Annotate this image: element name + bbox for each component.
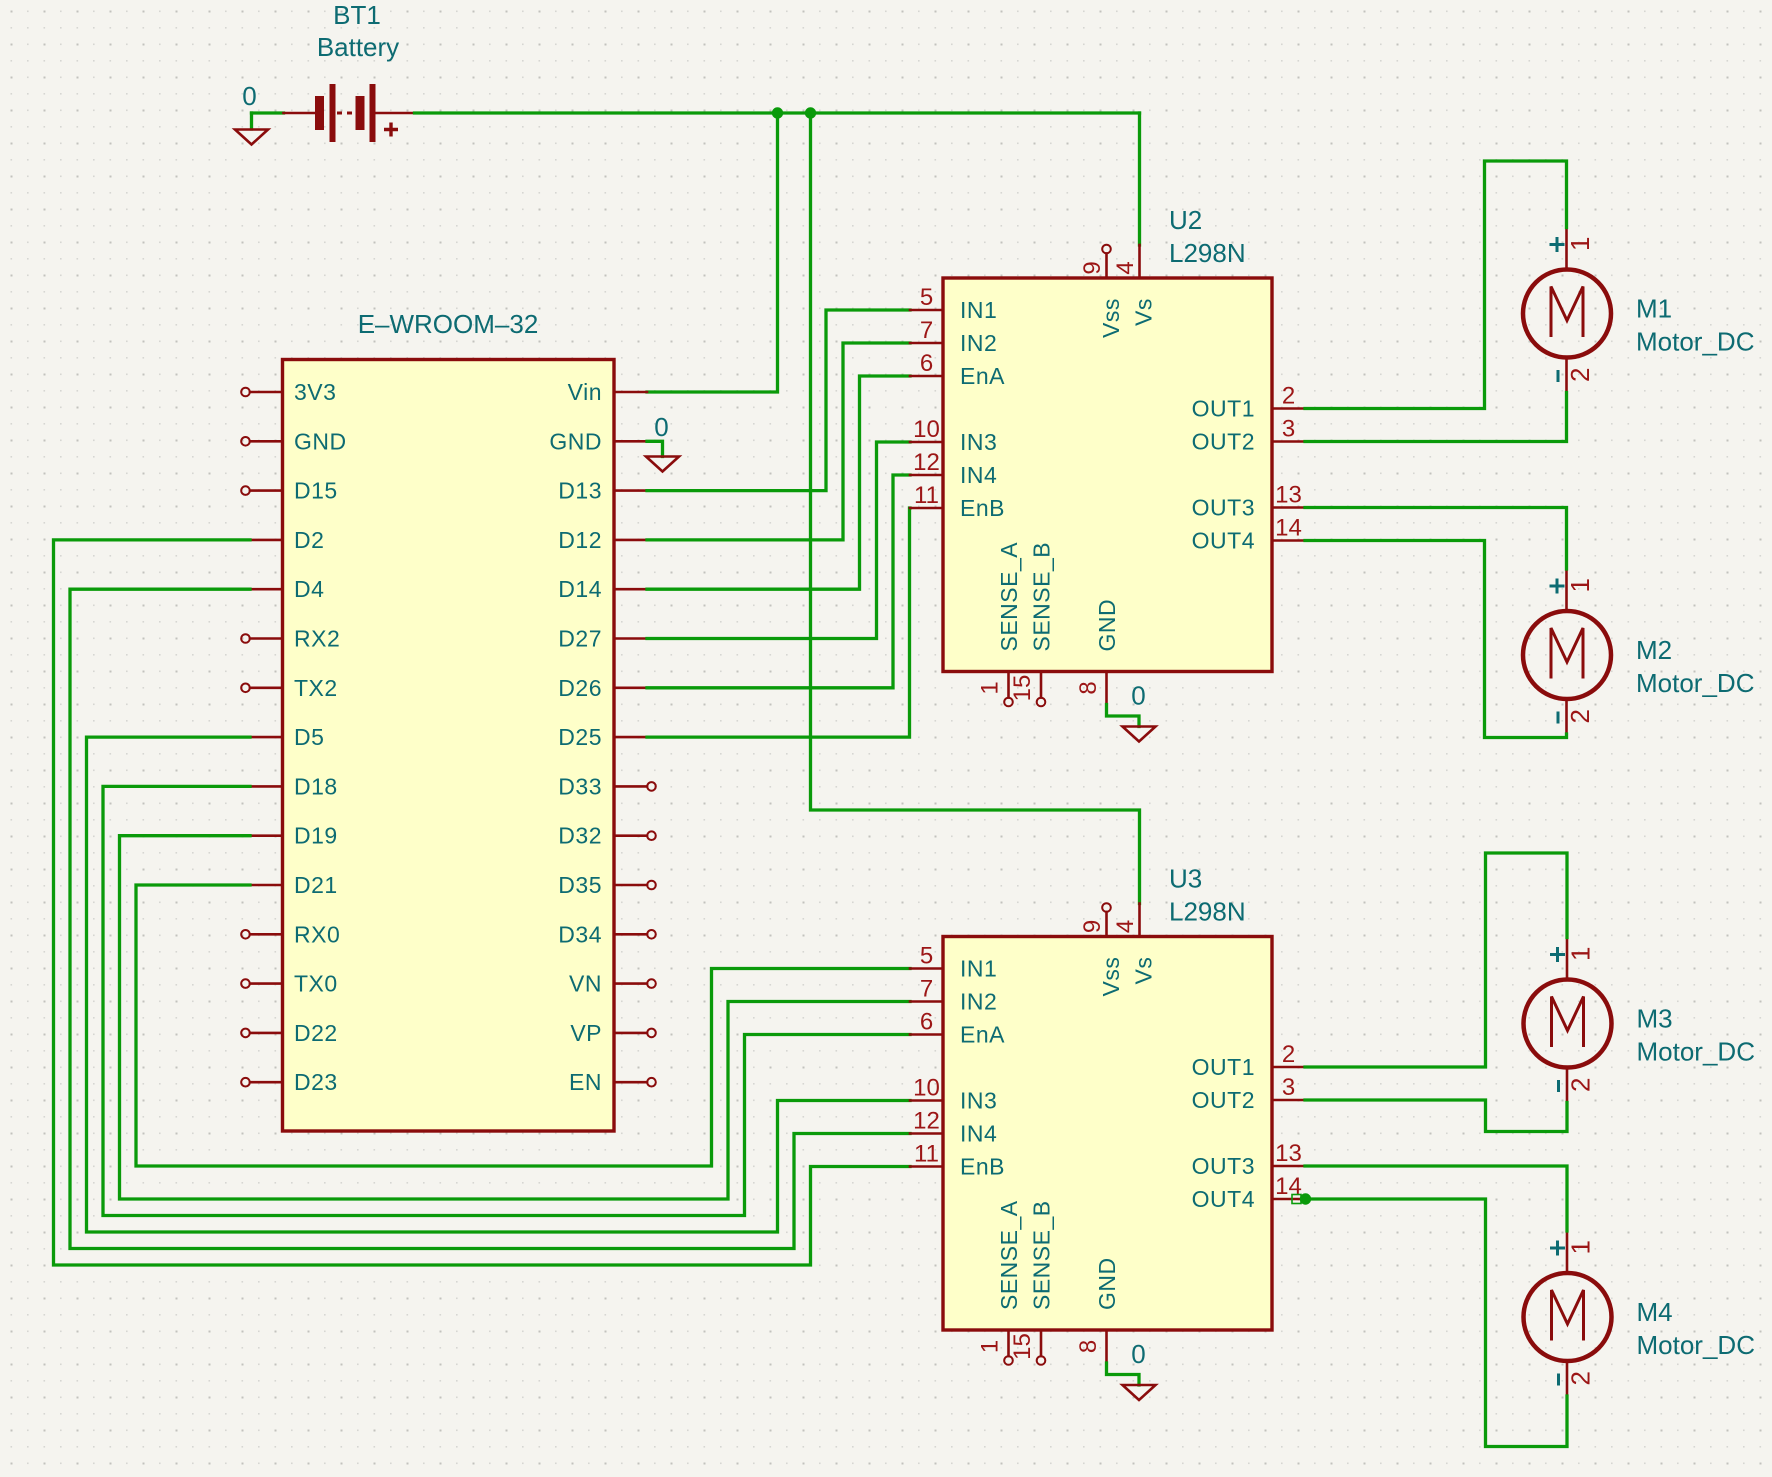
svg-text:7: 7	[920, 317, 933, 344]
pin D19 (ESP32 left)	[250, 823, 338, 849]
svg-text:D27: D27	[558, 626, 602, 652]
pin 1 U3.SENSE_A (unconnected)	[977, 1330, 1013, 1365]
svg-text:Vs: Vs	[1131, 298, 1157, 326]
pin TX2 (ESP32 left)	[241, 675, 337, 701]
wire D19 to U3 IN2	[120, 836, 911, 1199]
svg-text:IN3: IN3	[960, 1088, 997, 1114]
pin D2 (ESP32 left)	[250, 527, 324, 553]
junction Vin tap	[772, 107, 783, 118]
pin D15 (ESP32 left)	[241, 478, 338, 504]
svg-text:SENSE_A: SENSE_A	[996, 1200, 1022, 1310]
wire U3 Vs feed	[811, 113, 1140, 904]
svg-text:2: 2	[1565, 368, 1595, 382]
svg-text:7: 7	[920, 976, 933, 1003]
svg-text:U2: U2	[1169, 205, 1202, 235]
pin 9 U2.Vss (unconnected)	[1079, 245, 1111, 278]
wire D2 to U3 EnB	[54, 540, 911, 1265]
svg-text:1: 1	[1565, 578, 1595, 592]
motor M2 pin name -	[1557, 712, 1560, 724]
svg-text:Battery: Battery	[317, 32, 399, 62]
module E-WROOM-32 body	[283, 360, 615, 1132]
svg-text:BT1: BT1	[333, 0, 381, 30]
svg-text:2: 2	[1565, 709, 1595, 723]
svg-text:OUT3: OUT3	[1192, 1153, 1255, 1179]
pin D26 (ESP32 right)	[558, 675, 647, 701]
svg-text:D26: D26	[558, 675, 602, 701]
svg-text:2: 2	[1282, 1041, 1295, 1068]
pin D13 (ESP32 right)	[558, 478, 647, 504]
pin GND (ESP32 right)	[549, 428, 647, 454]
motor M1 body	[1523, 270, 1611, 358]
svg-text:3: 3	[1282, 1074, 1295, 1101]
wire U2 OUT3 to M2 +	[1305, 508, 1567, 570]
junction at U3 OUT4	[1300, 1193, 1311, 1204]
battery BT1 symbol	[284, 84, 415, 142]
svg-text:EnB: EnB	[960, 495, 1005, 521]
svg-text:6: 6	[920, 350, 933, 377]
svg-text:14: 14	[1275, 515, 1302, 542]
svg-text:D15: D15	[294, 478, 338, 504]
wire M1 - to U2 OUT2	[1305, 393, 1567, 442]
motor M2 pin name +	[1550, 579, 1565, 594]
wire U3 OUT3 to M4 +	[1305, 1166, 1567, 1231]
svg-text:RX0: RX0	[294, 921, 340, 947]
svg-text:SENSE_B: SENSE_B	[1029, 1200, 1055, 1310]
svg-text:8: 8	[1075, 1340, 1102, 1353]
svg-text:GND: GND	[1094, 1257, 1120, 1310]
svg-text:Motor_DC: Motor_DC	[1636, 668, 1754, 698]
svg-text:D21: D21	[294, 872, 338, 898]
pin EN (ESP32 right)	[569, 1069, 656, 1095]
motor M2 body	[1523, 611, 1611, 699]
pin 3V3 (ESP32 left)	[241, 379, 336, 405]
svg-text:5: 5	[920, 284, 933, 311]
pin 12 U3.IN4	[910, 1108, 997, 1147]
pin 14 U2.OUT4	[1192, 515, 1305, 554]
pin 13 U2.OUT3	[1192, 482, 1305, 521]
motor M3 pin name -	[1557, 1080, 1560, 1092]
pin D35 (ESP32 right)	[558, 872, 656, 898]
svg-text:IN2: IN2	[960, 330, 997, 356]
wire battery positive rail to U2 Vs	[415, 111, 1140, 114]
pin 2 U2.OUT1	[1192, 383, 1305, 422]
wire D5 to U3 IN3	[87, 737, 911, 1232]
pin 6 U2.EnA	[910, 350, 1005, 389]
pin D27 (ESP32 right)	[558, 626, 647, 652]
svg-text:Vs: Vs	[1131, 957, 1157, 985]
pin D25 (ESP32 right)	[558, 724, 647, 750]
pin D4 (ESP32 left)	[250, 576, 324, 602]
pin 8 U3.GND	[1075, 1330, 1107, 1363]
driver U2 body	[943, 278, 1272, 672]
svg-text:SENSE_A: SENSE_A	[996, 542, 1022, 652]
pin RX2 (ESP32 left)	[241, 626, 340, 652]
svg-text:0: 0	[1131, 1339, 1145, 1369]
svg-text:12: 12	[913, 1108, 940, 1135]
svg-text:OUT2: OUT2	[1192, 429, 1255, 455]
svg-text:EnA: EnA	[960, 363, 1005, 389]
svg-text:10: 10	[913, 416, 940, 443]
svg-text:D22: D22	[294, 1020, 338, 1046]
svg-text:TX0: TX0	[294, 971, 338, 997]
svg-text:M4: M4	[1637, 1297, 1673, 1327]
svg-text:TX2: TX2	[294, 675, 338, 701]
svg-text:D13: D13	[558, 478, 602, 504]
pin 5 U3.IN1	[910, 943, 997, 982]
svg-text:VP: VP	[570, 1020, 602, 1046]
pin 3 U3.OUT2	[1192, 1074, 1305, 1113]
svg-text:VN: VN	[569, 971, 602, 997]
wire D25 to U2 EnB	[647, 508, 910, 737]
motor M2 pin 2 stub	[1565, 699, 1568, 734]
dangling wire-end square at U3 OUT4	[1292, 1195, 1301, 1204]
svg-text:D25: D25	[558, 724, 602, 750]
svg-text:IN4: IN4	[960, 462, 997, 488]
svg-text:14: 14	[1275, 1173, 1302, 1200]
pin 5 U2.IN1	[910, 284, 997, 323]
wire M3 - to U3 OUT2	[1305, 1100, 1567, 1132]
pin 3 U2.OUT2	[1192, 416, 1305, 455]
svg-text:OUT4: OUT4	[1192, 528, 1255, 554]
pin D22 (ESP32 left)	[241, 1020, 338, 1046]
svg-text:IN2: IN2	[960, 989, 997, 1015]
wire M4 - to U3 OUT4	[1305, 1199, 1567, 1447]
svg-text:15: 15	[1009, 1333, 1036, 1360]
svg-text:IN1: IN1	[960, 297, 997, 323]
pin 6 U3.EnA	[910, 1009, 1005, 1048]
svg-text:D12: D12	[558, 527, 602, 553]
motor M3 pin 1 stub	[1566, 938, 1569, 980]
svg-text:IN3: IN3	[960, 429, 997, 455]
wire U3 OUT1 to M3 +	[1305, 853, 1567, 1067]
svg-text:M1: M1	[1636, 294, 1672, 324]
pin Vin (ESP32 right)	[568, 379, 647, 405]
svg-text:Vin: Vin	[568, 379, 602, 405]
svg-text:Motor_DC: Motor_DC	[1636, 327, 1754, 357]
svg-text:Vss: Vss	[1098, 298, 1124, 338]
motor M2 pin 1 stub	[1565, 569, 1568, 611]
svg-text:D4: D4	[294, 576, 324, 602]
svg-text:4: 4	[1112, 920, 1139, 933]
junction U3 Vs tap	[805, 107, 816, 118]
motor M3 pin name +	[1550, 947, 1565, 962]
wire battery negative to ground	[252, 111, 284, 114]
svg-text:Vss: Vss	[1098, 957, 1124, 997]
svg-text:9: 9	[1079, 261, 1106, 274]
svg-text:12: 12	[913, 449, 940, 476]
svg-text:2: 2	[1566, 1371, 1596, 1385]
ground symbol at U3 GND	[1123, 1385, 1156, 1400]
motor M4 pin 2 stub	[1566, 1361, 1569, 1396]
motor M1 pin 2 stub	[1565, 358, 1568, 393]
pin 7 U2.IN2	[910, 317, 997, 356]
wire D21 to U3 IN1	[136, 885, 910, 1166]
svg-text:OUT1: OUT1	[1192, 396, 1255, 422]
pin 9 U3.Vss (unconnected)	[1079, 903, 1111, 936]
svg-text:4: 4	[1112, 261, 1139, 274]
pin 14 U3.OUT4	[1192, 1173, 1305, 1212]
wire D13 to U2 IN1	[647, 310, 910, 491]
pin 1 U2.SENSE_A (unconnected)	[977, 672, 1013, 707]
pin D5 (ESP32 left)	[250, 724, 324, 750]
pin D33 (ESP32 right)	[558, 773, 656, 799]
svg-text:0: 0	[654, 412, 668, 442]
svg-text:L298N: L298N	[1169, 238, 1246, 268]
svg-text:GND: GND	[1094, 599, 1120, 652]
svg-text:OUT2: OUT2	[1192, 1087, 1255, 1113]
pin 12 U2.IN4	[910, 449, 997, 488]
wire D18 to U3 EnA	[103, 786, 910, 1215]
svg-text:D23: D23	[294, 1069, 338, 1095]
motor M4 pin name +	[1550, 1241, 1565, 1256]
svg-text:D33: D33	[558, 773, 602, 799]
svg-text:L298N: L298N	[1169, 897, 1246, 927]
pin 13 U3.OUT3	[1192, 1140, 1305, 1179]
driver U3 body	[943, 937, 1272, 1331]
svg-text:RX2: RX2	[294, 626, 340, 652]
svg-text:M3: M3	[1637, 1004, 1673, 1034]
svg-text:13: 13	[1275, 482, 1302, 509]
pin D21 (ESP32 left)	[250, 872, 338, 898]
motor M1 pin 1 stub	[1565, 228, 1568, 270]
svg-text:6: 6	[920, 1009, 933, 1036]
svg-text:GND: GND	[549, 428, 602, 454]
pin 11 U3.EnB	[910, 1141, 1005, 1180]
svg-text:9: 9	[1079, 920, 1106, 933]
pin D23 (ESP32 left)	[241, 1069, 338, 1095]
svg-text:1: 1	[1565, 237, 1595, 251]
svg-text:D5: D5	[294, 724, 324, 750]
wire U2 OUT1 to M1 +	[1305, 161, 1567, 409]
wire U3 GND to ground	[1107, 1363, 1140, 1385]
svg-text:1: 1	[1566, 947, 1596, 961]
svg-text:OUT4: OUT4	[1192, 1186, 1255, 1212]
svg-text:D32: D32	[558, 823, 602, 849]
svg-text:D19: D19	[294, 823, 338, 849]
pin GND (ESP32 left)	[241, 428, 346, 454]
wire D12 to U2 IN2	[647, 343, 910, 540]
svg-text:D34: D34	[558, 921, 602, 947]
motor M1 pin name +	[1550, 237, 1565, 252]
svg-text:1: 1	[977, 1340, 1004, 1353]
svg-text:2: 2	[1566, 1078, 1596, 1092]
wire ESP32 GND to ground	[647, 441, 663, 456]
ground symbol at ESP32 GND	[646, 457, 679, 472]
svg-text:0: 0	[242, 81, 256, 111]
wire D4 to U3 IN4	[70, 589, 910, 1248]
svg-text:Motor_DC: Motor_DC	[1637, 1037, 1755, 1067]
svg-text:2: 2	[1282, 383, 1295, 410]
svg-text:Motor_DC: Motor_DC	[1637, 1330, 1755, 1360]
pin RX0 (ESP32 left)	[241, 921, 340, 947]
svg-text:15: 15	[1009, 675, 1036, 702]
pin TX0 (ESP32 left)	[241, 971, 337, 997]
wire D14 to U2 EnA	[647, 376, 910, 589]
svg-text:8: 8	[1075, 681, 1102, 694]
svg-text:3V3: 3V3	[294, 379, 336, 405]
ground symbol at battery negative	[250, 113, 253, 129]
motor M4 pin name -	[1557, 1374, 1560, 1386]
wire M2 - to U2 OUT4	[1305, 541, 1567, 738]
pin 15 U3.SENSE_B (unconnected)	[1009, 1330, 1045, 1365]
pin 10 U2.IN3	[910, 416, 997, 455]
svg-text:5: 5	[920, 943, 933, 970]
pin 4 U3.Vs	[1112, 904, 1140, 937]
svg-text:E–WROOM–32: E–WROOM–32	[358, 309, 539, 339]
svg-text:1: 1	[1566, 1240, 1596, 1254]
pin D12 (ESP32 right)	[558, 527, 647, 553]
pin 7 U3.IN2	[910, 976, 997, 1015]
svg-text:OUT1: OUT1	[1192, 1054, 1255, 1080]
pin 4 U2.Vs	[1112, 245, 1140, 278]
svg-text:0: 0	[1131, 681, 1145, 711]
pin VN (ESP32 right)	[569, 971, 656, 997]
ground symbol at U2 GND	[1123, 727, 1156, 742]
wire D26 to U2 IN4	[647, 475, 910, 688]
pin D32 (ESP32 right)	[558, 823, 656, 849]
pin 2 U3.OUT1	[1192, 1041, 1305, 1080]
wire Vin riser	[647, 113, 778, 392]
wire U2 GND to ground	[1107, 705, 1140, 727]
motor M4 pin 1 stub	[1566, 1231, 1569, 1273]
svg-text:EnA: EnA	[960, 1022, 1005, 1048]
pin 8 U2.GND	[1075, 672, 1107, 705]
pin 10 U3.IN3	[910, 1075, 997, 1114]
motor M4 body	[1524, 1273, 1612, 1361]
svg-text:D2: D2	[294, 527, 324, 553]
pin VP (ESP32 right)	[570, 1020, 655, 1046]
svg-text:10: 10	[913, 1075, 940, 1102]
pin 11 U2.EnB	[910, 482, 1005, 521]
pin 15 U2.SENSE_B (unconnected)	[1009, 672, 1045, 707]
pin D14 (ESP32 right)	[558, 576, 647, 602]
svg-text:EN: EN	[569, 1069, 602, 1095]
svg-text:EnB: EnB	[960, 1154, 1005, 1180]
svg-text:GND: GND	[294, 428, 347, 454]
svg-text:D14: D14	[558, 576, 602, 602]
svg-text:11: 11	[914, 482, 939, 509]
motor M3 body	[1524, 980, 1612, 1068]
svg-text:D35: D35	[558, 872, 602, 898]
svg-text:U3: U3	[1169, 864, 1202, 894]
svg-text:IN4: IN4	[960, 1121, 997, 1147]
motor M3 pin 2 stub	[1566, 1068, 1569, 1103]
motor M1 pin name -	[1557, 370, 1560, 382]
pin D18 (ESP32 left)	[250, 773, 338, 799]
svg-text:IN1: IN1	[960, 956, 997, 982]
svg-text:OUT3: OUT3	[1192, 495, 1255, 521]
wire U2 Vs drop	[1138, 113, 1141, 245]
svg-text:11: 11	[914, 1141, 939, 1168]
svg-text:D18: D18	[294, 773, 338, 799]
svg-text:SENSE_B: SENSE_B	[1029, 542, 1055, 652]
svg-text:M2: M2	[1636, 635, 1672, 665]
svg-text:3: 3	[1282, 416, 1295, 443]
pin D34 (ESP32 right)	[558, 921, 656, 947]
svg-text:1: 1	[977, 681, 1004, 694]
wire D27 to U2 IN3	[647, 442, 910, 639]
svg-text:13: 13	[1275, 1140, 1302, 1167]
